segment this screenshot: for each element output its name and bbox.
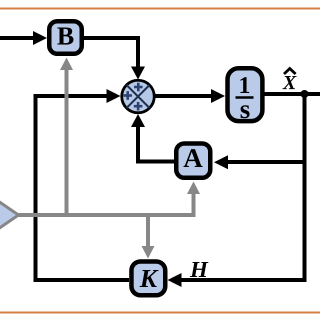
svg-text:H: H [189, 257, 209, 282]
svg-text:X: X [282, 72, 297, 94]
svg-text:K: K [139, 264, 159, 293]
svg-text:A: A [183, 143, 203, 173]
svg-text:B: B [57, 21, 74, 50]
